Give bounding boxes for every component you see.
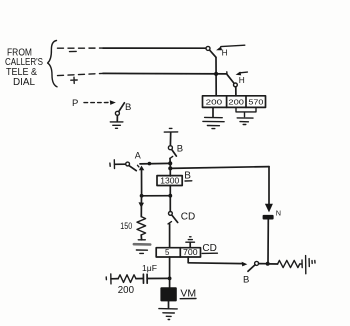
rectifier N bar (263, 215, 274, 220)
svg-text:570: 570 (248, 97, 263, 106)
contact B (middle) (168, 146, 172, 150)
battery cell (left of contact A) (110, 160, 115, 169)
resistor (right, to battery) (278, 260, 300, 267)
resistor 150 (137, 217, 146, 235)
svg-text:P: P (72, 98, 78, 109)
junction dot (main node) (168, 161, 172, 165)
svg-text:5: 5 (165, 248, 170, 257)
svg-text:CD: CD (202, 243, 216, 254)
resistor 200 (bottom-left) (118, 275, 136, 283)
wire contact B to node (169, 158, 171, 163)
svg-text:N: N (276, 208, 281, 217)
svg-text:B: B (184, 171, 191, 182)
svg-text:B: B (177, 144, 183, 155)
arrow down (tap) on resistor 150 branch (139, 202, 145, 208)
wire node down to capacitor junction (169, 257, 171, 287)
wire main line into coil 1300 (169, 163, 171, 176)
contact CD (169, 212, 173, 216)
junction dot (148, 162, 152, 166)
ground (under coil1) (203, 117, 224, 128)
voltmeter VM box (160, 287, 176, 301)
svg-text:H: H (222, 48, 228, 58)
wire to the right (to rectifier N) (170, 167, 269, 169)
svg-text:B: B (243, 275, 249, 286)
arrow H2 (240, 71, 247, 74)
battery cell (bottom-left) (106, 274, 111, 284)
wire capacitor to junction (147, 277, 169, 279)
minus polarity label (70, 50, 77, 52)
svg-text:200: 200 (228, 97, 244, 106)
ground (under coils 2-3) (237, 118, 253, 125)
wire resistor to ground (140, 235, 142, 240)
svg-text:CD: CD (181, 211, 195, 222)
wire from contact H1 down to coil 200 (215, 57, 217, 95)
coil B 1300 (157, 176, 182, 186)
wire coil 700 to contact B (bottom) (187, 257, 189, 263)
contact A (126, 162, 130, 166)
svg-text:1μF: 1μF (142, 263, 157, 273)
ground (above coil 700) (186, 237, 195, 242)
wire coil 1300 down (169, 186, 171, 212)
wire line2 dashed (ring lead) (58, 73, 104, 75)
junction line2 x wire (214, 72, 218, 76)
contact H2 (on line2) (226, 72, 228, 74)
wire node to resistor (268, 263, 278, 265)
coil box 5 / 700 (156, 248, 200, 257)
wire cross branch (142, 195, 171, 197)
wire dashed arrow from P (84, 102, 110, 104)
wire VM to ground (168, 301, 170, 308)
brace (48, 41, 57, 87)
ground (under resistor 150) (138, 239, 145, 241)
svg-text:150: 150 (120, 221, 132, 231)
ground (top middle) (164, 128, 177, 132)
wire line1 solid (103, 47, 206, 49)
wire cell to contact A (115, 163, 126, 165)
coil box row 200/200/570 (203, 96, 266, 108)
battery cells (300, 263, 302, 265)
wire from contact H2 down to coil 200b (235, 87, 237, 96)
wire ground to contact B mid (169, 133, 171, 146)
ground (under VM) (159, 309, 177, 320)
ground (top-left) (110, 122, 123, 128)
svg-text:200: 200 (118, 285, 135, 296)
svg-text:DIAL: DIAL (13, 76, 35, 88)
svg-text:200: 200 (206, 97, 223, 106)
svg-text:B: B (125, 102, 131, 113)
arrow H1 (221, 45, 245, 46)
wire resistor to capacitor (136, 278, 143, 280)
junction dot bottom right (266, 262, 270, 266)
label FROM CALLER'S TELE & DIAL (5, 47, 43, 88)
svg-text:H: H (239, 75, 245, 85)
battery ellipsis ticks (312, 260, 315, 263)
arrow into rectifier N (265, 204, 273, 213)
contact H1 (on line1) (206, 46, 210, 50)
wire contact CD down to coil 5 (169, 224, 171, 248)
contact B (top-left, pulse contact) (115, 111, 119, 115)
wire left branch vertical (141, 168, 143, 196)
wire bracket coils 2-3 to ground (236, 107, 256, 116)
junction dot left branch (168, 194, 172, 198)
wire down right side (268, 167, 270, 209)
armature arrow at node (139, 166, 145, 171)
svg-text:1300: 1300 (160, 177, 180, 186)
capacitor 1uF (143, 274, 147, 283)
wire contact B to node (259, 263, 268, 265)
wire N bar down to bottom node (267, 220, 269, 264)
contact B (bottom) (248, 265, 255, 272)
svg-text:VM: VM (180, 287, 196, 299)
svg-text:A: A (135, 150, 141, 160)
wire coil1 to ground (212, 107, 214, 116)
plus polarity label (71, 77, 77, 83)
wire cell to resistor 200 (111, 278, 118, 280)
wire line1 dashed (tip lead) (58, 47, 104, 49)
wire line2 solid (103, 72, 227, 75)
wire below contact B (116, 116, 118, 122)
svg-text:700: 700 (183, 248, 198, 257)
wire node A to main line (140, 162, 170, 165)
